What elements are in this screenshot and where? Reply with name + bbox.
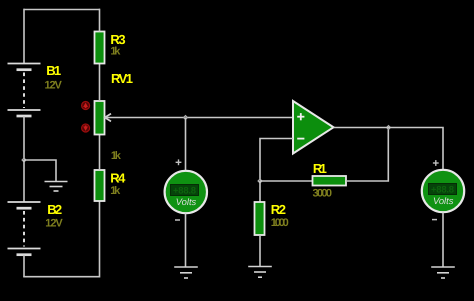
potentiometer RV1 wiper arrow <box>105 114 111 122</box>
junction feedback node <box>258 179 262 183</box>
wire node to R2 <box>259 181 261 202</box>
potentiometer RV1 body <box>95 101 105 135</box>
svg-text:1000: 1000 <box>271 217 289 229</box>
svg-text:1k: 1k <box>111 150 122 162</box>
svg-text:B2: B2 <box>47 202 62 217</box>
wire R1 to output node <box>346 128 388 182</box>
ground under R2 <box>248 267 272 278</box>
voltmeter M2 <box>422 170 464 212</box>
wire R4 to RV1 <box>99 134 101 170</box>
adjust button up of RV1 <box>82 102 90 110</box>
ground under M2 <box>431 267 455 278</box>
wire top horizontal <box>24 9 101 11</box>
svg-text:1k: 1k <box>110 185 121 197</box>
minus terminal mark of M1 <box>175 219 180 221</box>
wire bottom horizontal <box>23 276 100 278</box>
svg-text:3000: 3000 <box>313 188 333 200</box>
ground under M1 <box>174 267 198 278</box>
wire node to R1 <box>260 180 313 182</box>
battery B1 <box>8 64 41 117</box>
svg-text:+88.8: +88.8 <box>431 184 454 195</box>
plus terminal mark of M2 <box>433 160 439 166</box>
svg-text:R1: R1 <box>313 161 327 176</box>
wire left vertical to B1 <box>23 9 25 64</box>
wire inverting input to feedback node <box>260 139 293 182</box>
wire voltmeter M1 to ground <box>185 214 187 267</box>
wire R2 to ground <box>259 235 261 266</box>
svg-text:Volts: Volts <box>433 195 454 206</box>
junction output node <box>387 126 391 130</box>
svg-text:RV1: RV1 <box>111 71 133 86</box>
svg-text:12V: 12V <box>45 218 63 230</box>
svg-text:R4: R4 <box>110 171 126 186</box>
plus terminal mark of M1 <box>176 159 182 165</box>
junction battery midpoint <box>22 158 26 162</box>
resistor R3 <box>95 32 105 64</box>
junction wiper node <box>184 116 188 120</box>
wire up to R4 <box>99 201 101 278</box>
resistor R4 <box>95 170 105 201</box>
wire B2 bottom <box>23 255 25 277</box>
svg-text:Volts: Volts <box>176 196 197 207</box>
resistor R2 <box>255 202 265 235</box>
wire B1 bottom to junction <box>23 116 25 160</box>
wire RV1 to R3 <box>99 64 101 102</box>
ground near batteries <box>45 182 68 192</box>
op-amp U1 <box>293 101 334 154</box>
minus terminal mark of M2 <box>432 219 437 221</box>
svg-text:B1: B1 <box>46 63 61 78</box>
wire junction down to voltmeter M1 <box>185 118 187 171</box>
svg-text:1k: 1k <box>110 46 121 58</box>
voltmeter M1 <box>165 171 207 213</box>
adjust button down of RV1 <box>82 124 90 132</box>
wire junction to ground stub <box>24 160 56 181</box>
battery B2 <box>8 202 41 255</box>
svg-text:R2: R2 <box>271 202 286 217</box>
resistor R1 <box>313 176 347 186</box>
svg-text:12V: 12V <box>45 80 63 92</box>
wire voltmeter M2 to ground <box>442 213 444 267</box>
wire wiper to op-amp non-inverting input <box>105 117 293 119</box>
wire R3 top <box>99 9 101 32</box>
wire op-amp output to voltmeter M2 <box>334 128 444 170</box>
wire junction to B2 <box>23 160 25 202</box>
svg-text:+88.8: +88.8 <box>173 185 196 196</box>
